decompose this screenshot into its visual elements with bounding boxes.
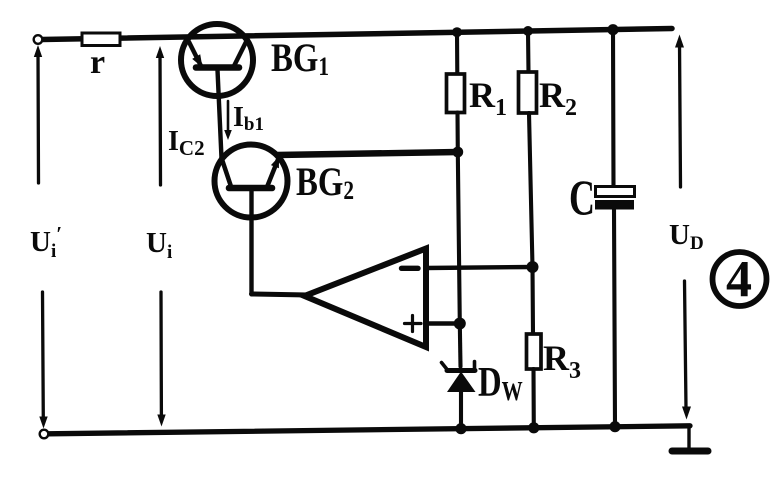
wire non-inverting input to node C xyxy=(426,321,460,325)
current arrow Ib1 xyxy=(224,101,232,140)
wire inverting input to node B xyxy=(426,267,533,268)
voltage arrow Ui down xyxy=(157,292,165,427)
resistor R3 xyxy=(527,267,542,430)
ground xyxy=(672,426,708,451)
junction node A top R1 xyxy=(452,27,462,37)
resistor R2 xyxy=(519,31,537,267)
wire BG2 collector to node R1 xyxy=(277,152,458,155)
junction node C plus input xyxy=(454,318,466,330)
junction node BG2-R1 xyxy=(452,147,463,158)
terminal input top-left xyxy=(34,35,43,44)
voltage arrow Ui' up xyxy=(34,45,42,183)
junction node top R2 xyxy=(523,26,533,36)
label op-amp minus xyxy=(402,266,419,271)
junction node bottom C xyxy=(609,421,620,432)
voltage arrow UD down xyxy=(682,281,691,420)
junction node top C xyxy=(607,24,618,35)
op-amp U1 xyxy=(305,249,427,348)
voltage arrow UD up xyxy=(675,35,684,188)
voltage arrow Ui' down xyxy=(39,292,47,429)
transistor Q2 BG2 xyxy=(215,145,288,218)
wire top rail xyxy=(42,29,672,40)
wire BG2 emitter down to op-amp output xyxy=(249,190,253,294)
zener diode DW xyxy=(442,362,476,430)
wire bottom rail xyxy=(48,426,690,434)
label op-amp plus xyxy=(405,316,422,332)
terminal input bottom-left xyxy=(40,430,49,439)
transistor Q1 BG1 xyxy=(181,24,253,96)
svg-text:4: 4 xyxy=(726,251,752,308)
figure number 4 xyxy=(713,251,767,308)
resistor R1 xyxy=(447,32,465,152)
junction node bottom zener xyxy=(455,423,466,434)
voltage arrow Ui up xyxy=(156,46,164,185)
wire BG1 base to BG2 xyxy=(218,70,222,158)
junction node B minus input xyxy=(527,261,539,273)
junction node bottom R3 xyxy=(528,422,539,433)
svg-text:C: C xyxy=(569,170,595,225)
resistor r xyxy=(82,33,120,46)
wire op-amp output xyxy=(252,294,309,295)
wire node A down through + node to zener xyxy=(458,152,460,324)
capacitor C xyxy=(596,30,635,427)
svg-text:r: r xyxy=(90,44,105,81)
